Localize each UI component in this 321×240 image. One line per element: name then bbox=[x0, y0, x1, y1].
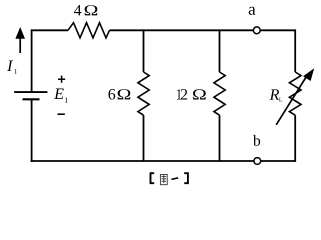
battery E1 positive plate bbox=[14, 91, 47, 93]
label 4Ω bbox=[74, 5, 81, 15]
wire right upper bbox=[294, 29, 296, 72]
label a bbox=[249, 7, 256, 15]
battery E1 plus sign bbox=[58, 76, 65, 83]
resistor 4Ω bbox=[68, 23, 110, 38]
caption glyph 圖 bbox=[160, 175, 167, 185]
variable resistor RL bbox=[289, 72, 301, 115]
wire branch 6Ω upper bbox=[143, 29, 145, 72]
wire bottom bbox=[31, 160, 296, 162]
terminal b bbox=[254, 158, 261, 165]
wire branch 6Ω lower bbox=[143, 115, 145, 161]
wire top right segment bbox=[110, 29, 296, 31]
label 12Ω bbox=[177, 89, 181, 99]
wire left lower bbox=[31, 99, 33, 162]
caption opening bracket 【 bbox=[151, 173, 155, 183]
battery E1 negative plate bbox=[23, 98, 40, 100]
label I1 bbox=[7, 61, 13, 71]
battery E1 minus sign bbox=[58, 113, 65, 115]
wire branch 12Ω lower bbox=[219, 115, 221, 161]
caption glyph 一 bbox=[172, 178, 179, 179]
wire branch 12Ω upper bbox=[219, 29, 221, 72]
wire left upper bbox=[31, 29, 33, 92]
caption 圖一 (Figure 1) bbox=[151, 173, 188, 185]
resistor 12Ω bbox=[214, 72, 225, 115]
terminal a bbox=[253, 27, 260, 34]
caption closing bracket 】 bbox=[184, 173, 188, 183]
label E1 bbox=[54, 89, 64, 99]
current arrow I1 bbox=[15, 27, 25, 53]
wire right lower bbox=[294, 115, 296, 162]
label RL bbox=[270, 89, 280, 99]
resistor 6Ω bbox=[138, 72, 149, 115]
wire top left segment bbox=[32, 29, 69, 31]
label 6Ω bbox=[108, 89, 115, 100]
label b bbox=[253, 135, 260, 146]
RL wiper arrow bbox=[276, 68, 314, 125]
